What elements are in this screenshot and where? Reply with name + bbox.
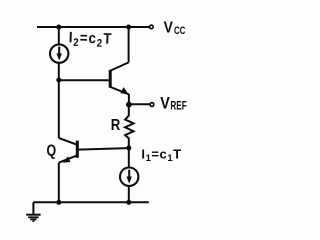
svg-text:Q: Q xyxy=(47,141,57,159)
node: VREF junction xyxy=(126,102,132,108)
wire: I2 top lead xyxy=(58,27,60,45)
wire: buffer transistor base lead xyxy=(59,79,109,81)
node: left rail / buffer base junction xyxy=(56,77,61,82)
wire: buffer collector vertical xyxy=(128,27,130,62)
node: top rail / I2 junction xyxy=(56,24,61,29)
terminal VREF xyxy=(150,103,154,107)
wire: Q emitter vertical to ground rail xyxy=(58,163,60,203)
wire: Q base lead xyxy=(78,148,129,150)
svg-text:V: V xyxy=(164,19,173,37)
current source I1 xyxy=(120,168,138,186)
wire: left rail from I2 to Q collector xyxy=(58,63,60,138)
wire: I1 top lead xyxy=(128,148,130,168)
node: ground rail / I1 junction xyxy=(126,200,131,205)
wire: VCC top rail xyxy=(37,26,150,28)
wire: VREF stub xyxy=(129,103,150,105)
current source I2 xyxy=(50,44,68,62)
svg-text:CC: CC xyxy=(174,25,186,38)
wire: I1 bottom lead xyxy=(128,186,130,203)
wire: ground rail xyxy=(33,201,148,203)
node: ground rail / Q emitter junction xyxy=(56,200,61,205)
svg-text:R: R xyxy=(111,117,121,134)
terminal VCC xyxy=(150,25,154,29)
transistor Q (NPN, mirrored) xyxy=(59,138,78,163)
transistor U1 (emitter-follower buffer, NPN) xyxy=(110,62,129,94)
wire: buffer emitter vertical to VREF node xyxy=(128,94,130,104)
svg-text:V: V xyxy=(160,95,170,113)
resistor R xyxy=(125,104,133,148)
ground xyxy=(26,202,40,221)
node: R / I1 / Q base junction xyxy=(126,145,131,150)
svg-text:REF: REF xyxy=(170,100,186,113)
node: top rail / buffer collector junction xyxy=(126,24,131,29)
